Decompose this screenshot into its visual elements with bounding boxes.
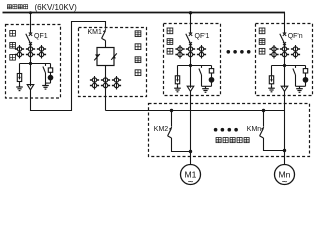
wire: main down bbox=[190, 66, 192, 87]
node: junction dot bbox=[189, 64, 192, 67]
motor Mn bbox=[275, 165, 295, 185]
surge arrester bbox=[175, 76, 179, 84]
wire: junction bar bbox=[20, 63, 51, 65]
wire: out of cabinet, transfer link to soft starter bbox=[31, 22, 106, 111]
node: KMn tap bbox=[262, 109, 265, 112]
dots between running cabinets bbox=[227, 50, 251, 54]
contactor KM1 bbox=[102, 29, 106, 40]
wire: bus to QF'1 bbox=[190, 13, 192, 34]
surge arrester bbox=[269, 76, 273, 84]
svg-text:~: ~ bbox=[188, 177, 194, 188]
incoming cabinet box 进线柜 bbox=[6, 25, 61, 99]
ground bbox=[268, 86, 275, 92]
CT bank (3 columns) bbox=[15, 45, 24, 59]
wire: main down bbox=[284, 66, 286, 87]
ground bbox=[202, 86, 209, 92]
contactor KM2 bbox=[168, 127, 172, 138]
breaker QF'1 bbox=[186, 33, 192, 46]
earthing switch + PT branch bbox=[43, 64, 53, 84]
ground bbox=[296, 86, 303, 92]
wire: bus to QF1 bbox=[30, 13, 32, 34]
svg-text:QF1: QF1 bbox=[34, 33, 48, 40]
label 系统母线 bbox=[7, 5, 11, 9]
wire: KM2 to M1 line bbox=[172, 138, 191, 152]
dots in switching cabinet bbox=[214, 128, 238, 132]
earthing switch + PT branch bbox=[293, 66, 308, 87]
label 运行柜 vertical (left) bbox=[167, 28, 173, 34]
motor switching cabinet box 电机切换柜 bbox=[149, 104, 310, 157]
svg-text:(6KV/10KV): (6KV/10KV) bbox=[35, 3, 78, 12]
cable head triangle bbox=[187, 86, 194, 91]
svg-text:QF'1: QF'1 bbox=[195, 33, 210, 40]
svg-text:~: ~ bbox=[282, 177, 288, 188]
CT bank (3 columns) bbox=[90, 76, 99, 90]
wire: junction bar bbox=[178, 65, 212, 67]
motor M1 bbox=[181, 165, 201, 185]
node: junction dot bbox=[283, 64, 286, 67]
label 进线柜 vertical bbox=[10, 30, 16, 36]
ground bbox=[174, 86, 181, 92]
label 电机切换柜 bbox=[216, 138, 221, 143]
node: junction dot bbox=[29, 62, 32, 65]
cable head triangle bbox=[27, 85, 34, 90]
running cabinet box 2 运行柜 bbox=[256, 24, 313, 96]
earthing switch + PT branch bbox=[199, 66, 214, 87]
wire: QF1 to junction bbox=[30, 43, 32, 63]
thyristor right bbox=[112, 55, 116, 58]
wire: down to motor M1 bbox=[190, 91, 192, 164]
contactor KMn bbox=[260, 127, 264, 138]
wire: soft starter output bus bbox=[106, 110, 285, 112]
label 软起动柜 vertical bbox=[135, 31, 141, 37]
breaker QF'n bbox=[280, 33, 286, 46]
wire: down to motor Mn bbox=[284, 91, 286, 164]
thyristor left bbox=[95, 54, 99, 57]
label 运行柜 vertical (right) bbox=[259, 28, 265, 34]
wire: to arrester bbox=[177, 66, 179, 76]
wire: KMn to Mn line bbox=[264, 138, 285, 151]
thyristor block bbox=[97, 48, 114, 66]
node bbox=[189, 150, 192, 153]
wire: junction bar bbox=[272, 65, 306, 67]
svg-text:KMn: KMn bbox=[247, 126, 261, 133]
wire: down to KMn bbox=[263, 111, 265, 127]
wire: down to KM2 bbox=[171, 111, 173, 127]
ground bbox=[42, 83, 49, 89]
running cabinet box 1 运行柜 bbox=[164, 24, 221, 96]
wire: arrester to ground bbox=[177, 84, 179, 86]
breaker QF1 bbox=[26, 33, 32, 46]
node: KM2 tap bbox=[170, 109, 173, 112]
wire: block to output bbox=[105, 66, 107, 111]
surge arrester bbox=[17, 74, 21, 82]
wire: arrester to ground bbox=[19, 82, 21, 85]
soft starter cabinet box 软起动柜 bbox=[79, 28, 147, 97]
node bbox=[283, 149, 286, 152]
wire: QF'n to junction bbox=[284, 43, 286, 65]
cable head triangle bbox=[281, 86, 288, 91]
wire: to arrester bbox=[19, 64, 21, 74]
svg-text:KM2: KM2 bbox=[154, 126, 169, 133]
svg-text:QF'n: QF'n bbox=[288, 33, 303, 40]
wire: main down bbox=[30, 64, 32, 86]
wire: bus right end drop to QF'n bbox=[284, 13, 286, 34]
svg-text:KM1: KM1 bbox=[88, 29, 103, 36]
ground bbox=[16, 85, 23, 91]
wire: to arrester bbox=[271, 66, 273, 76]
wire: arrester to ground bbox=[271, 84, 273, 86]
CT bank bbox=[175, 45, 184, 59]
system bus 6KV/10KV bbox=[3, 12, 286, 14]
CT bank bbox=[269, 45, 278, 59]
node: QF1 bus tap bbox=[29, 11, 32, 14]
node: QF'1 bus tap bbox=[189, 11, 192, 14]
wire: QF'1 to junction bbox=[190, 43, 192, 65]
wire: KM1 to thyristor block bbox=[105, 41, 107, 48]
